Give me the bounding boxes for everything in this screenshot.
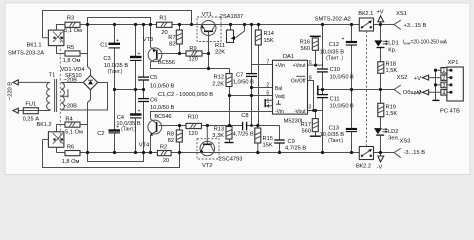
capacitor C1 xyxy=(100,38,120,49)
mechanical link dashed BK1 xyxy=(59,32,61,144)
svg-text:XP1: XP1 xyxy=(448,60,459,66)
svg-text:XS1: XS1 xyxy=(396,11,407,17)
resistor R10 xyxy=(186,115,201,137)
wire R15 leads xyxy=(257,126,259,153)
svg-text:20: 20 xyxy=(163,158,169,164)
wire top main rail xyxy=(57,24,395,26)
svg-text:LD1: LD1 xyxy=(388,40,398,46)
resistor R6 xyxy=(62,144,80,165)
capacitor C5 xyxy=(138,75,175,90)
svg-text:VT2: VT2 xyxy=(202,163,212,169)
transistor VT4 xyxy=(139,114,172,148)
resistor R19 xyxy=(378,103,398,117)
wire VT1 base vertical xyxy=(208,35,210,68)
svg-text:R5: R5 xyxy=(67,45,74,51)
wire bottom BK1.2 feed line y=167.5 xyxy=(43,140,180,168)
svg-text:ВК2.2: ВК2.2 xyxy=(356,163,371,169)
wire VT2 base vertical xyxy=(206,126,208,139)
svg-text:C9: C9 xyxy=(288,139,295,145)
thermal switch BK1.2 xyxy=(36,122,63,152)
ground pins 1 4 xyxy=(265,100,272,106)
svg-text:On/Off: On/Off xyxy=(291,78,306,84)
capacitor C2 xyxy=(97,124,120,136)
wire R14 leads xyxy=(258,25,260,126)
svg-text:ВС546: ВС546 xyxy=(154,114,171,120)
svg-text:+V: +V xyxy=(376,9,383,15)
resistor R12 xyxy=(212,74,232,88)
wire R12 leads xyxy=(229,69,231,96)
svg-text:C1: C1 xyxy=(100,43,107,49)
svg-text:SF510: SF510 xyxy=(65,73,82,79)
bridge rectifier VD1-VD4 xyxy=(60,67,97,90)
svg-text:C11: C11 xyxy=(330,96,340,102)
svg-text:+3...15 В: +3...15 В xyxy=(404,23,427,29)
svg-text:-Vin: -Vin xyxy=(275,109,284,115)
svg-text:10,0/50 В: 10,0/50 В xyxy=(150,105,175,111)
svg-text:2,2K: 2,2K xyxy=(212,81,224,87)
connector XP1 xyxy=(414,60,463,114)
jack XS1 xyxy=(394,11,427,29)
wire VT4 base line R10 R13 C8 row y=125.5 xyxy=(159,125,280,127)
wire C12 C13 chain x=351.5 xyxy=(351,25,353,153)
capacitor C9 xyxy=(274,139,306,152)
svg-text:R12: R12 xyxy=(214,75,224,81)
capacitor C12 xyxy=(320,37,357,62)
mechanical link dashed xyxy=(366,31,368,147)
wire R11 wiper xyxy=(236,25,245,38)
svg-text:(Тант.): (Тант.) xyxy=(108,69,123,75)
svg-text:20: 20 xyxy=(161,30,167,36)
svg-text:1,0/50 В: 1,0/50 В xyxy=(233,80,254,86)
wire C7 vertical xyxy=(251,65,253,126)
svg-text:Кр.: Кр. xyxy=(388,47,396,53)
svg-text:R7: R7 xyxy=(168,35,175,41)
svg-text:R9: R9 xyxy=(189,46,196,52)
resistor R18 xyxy=(378,61,398,74)
svg-text:1,5K: 1,5K xyxy=(386,111,398,117)
capacitor C13 xyxy=(320,125,357,144)
svg-text:VT3: VT3 xyxy=(143,37,153,43)
+V symbol xyxy=(376,9,383,21)
capacitor C8 xyxy=(233,113,254,137)
svg-text:R1: R1 xyxy=(159,15,166,21)
svg-text:C13: C13 xyxy=(329,125,339,131)
junction dots misc xyxy=(113,88,116,91)
wire common midpoint link xyxy=(115,89,144,91)
svg-text:C5: C5 xyxy=(150,75,157,81)
wire R16 leads xyxy=(315,36,317,65)
wire VT3 emitter xyxy=(150,25,152,48)
capacitor C10 xyxy=(317,67,354,80)
svg-text:22K: 22K xyxy=(215,50,225,56)
wire R17 leads xyxy=(315,111,317,137)
capacitor C3 xyxy=(103,51,141,75)
transistor VT2 xyxy=(197,139,242,169)
svg-text:R8: R8 xyxy=(167,132,174,138)
svg-text:R16: R16 xyxy=(300,39,310,45)
svg-text:Vadj: Vadj xyxy=(275,94,285,100)
svg-text:DA1: DA1 xyxy=(283,54,294,60)
svg-text:R11: R11 xyxy=(215,43,225,49)
svg-text:+: + xyxy=(116,38,119,44)
svg-text:+Vin: +Vin xyxy=(275,63,285,69)
svg-text:560: 560 xyxy=(302,128,312,134)
wire bottom parallel loop y=161.5 xyxy=(88,153,144,162)
jack XS3 xyxy=(394,138,425,157)
fuse FU1 xyxy=(23,102,40,123)
wire VT3 collector to line xyxy=(151,62,230,69)
svg-text:-V: -V xyxy=(377,165,383,171)
svg-text:(Тант.): (Тант.) xyxy=(328,138,343,144)
wire bridge minus drop xyxy=(88,90,91,153)
svg-text:R3: R3 xyxy=(67,16,74,22)
wire R12 to R13 vertical xyxy=(229,96,231,126)
svg-text:C7: C7 xyxy=(236,72,243,78)
resistor R7 xyxy=(168,30,182,48)
svg-text:1: 1 xyxy=(443,68,446,74)
capacitor C6 xyxy=(138,97,175,111)
svg-text:10,0/35 В: 10,0/35 В xyxy=(320,49,345,55)
resistor R9 xyxy=(186,46,202,63)
svg-text:5: 5 xyxy=(266,90,269,96)
svg-text:C1,C2 - 10000,0/50 В: C1,C2 - 10000,0/50 В xyxy=(158,92,213,98)
wire R13 bottom to ground xyxy=(229,139,231,143)
jack XS2 xyxy=(394,75,422,96)
resistor R17 xyxy=(301,119,321,137)
wire pin8 OnOff xyxy=(308,81,314,111)
svg-text:Bal: Bal xyxy=(275,86,282,92)
wire C5 C6 chain xyxy=(143,25,145,153)
svg-text:3: 3 xyxy=(308,104,311,110)
switch BK2.2 xyxy=(356,147,374,170)
svg-text:2: 2 xyxy=(443,76,446,82)
svg-text:VT4: VT4 xyxy=(139,142,149,148)
svg-text:+Vout: +Vout xyxy=(293,63,307,69)
svg-text:FU1: FU1 xyxy=(25,102,36,108)
wire common rail right xyxy=(318,89,394,91)
svg-text:ВК1.1: ВК1.1 xyxy=(26,43,41,49)
resistor R4 xyxy=(57,116,88,152)
junction dots top rail xyxy=(86,23,89,26)
svg-text:SMTS-203-2A: SMTS-203-2A xyxy=(8,50,44,56)
svg-text:8: 8 xyxy=(309,75,312,81)
svg-text:15K: 15K xyxy=(263,143,273,149)
svg-text:LD2: LD2 xyxy=(388,129,398,135)
resistor R15 xyxy=(255,128,273,149)
svg-text:+: + xyxy=(342,37,345,43)
svg-text:C10: C10 xyxy=(330,67,340,73)
svg-text:2SC4793: 2SC4793 xyxy=(219,156,243,162)
wire top parallel loop y=17.5 xyxy=(88,18,151,25)
potentiometer R11 xyxy=(215,30,235,56)
input terminal top xyxy=(13,80,50,85)
svg-text:-3...15 В: -3...15 В xyxy=(404,150,426,156)
svg-text:120: 120 xyxy=(188,56,198,62)
svg-text:82: 82 xyxy=(169,42,175,48)
wire C9 drop xyxy=(279,126,281,153)
svg-text:4: 4 xyxy=(267,104,270,110)
svg-text:+: + xyxy=(138,51,141,57)
wire VT4 collector line -Vin y=111.5 xyxy=(151,112,273,120)
capacitor C7 xyxy=(233,72,257,85)
svg-text:(Тант .): (Тант .) xyxy=(326,56,343,62)
svg-text:6: 6 xyxy=(309,60,312,66)
svg-text:(Тант.): (Тант.) xyxy=(121,127,136,133)
svg-text:1,5K: 1,5K xyxy=(386,68,398,74)
svg-text:T1: T1 xyxy=(49,72,56,78)
wire right bus x=322.5 xyxy=(322,25,324,153)
svg-text:4: 4 xyxy=(443,90,446,96)
svg-text:R13: R13 xyxy=(214,127,224,133)
junction dots bottom rail xyxy=(86,151,89,154)
resistor R2 xyxy=(157,145,171,164)
wire pin6 +Vout to bus xyxy=(308,64,323,66)
IC DA1 xyxy=(265,54,312,124)
svg-text:1,8 Ом: 1,8 Ом xyxy=(62,159,80,165)
transistor VT3 xyxy=(143,37,175,66)
svg-text:R6: R6 xyxy=(67,144,74,150)
resistor R13 xyxy=(212,127,232,140)
svg-text:7: 7 xyxy=(266,60,269,66)
svg-text:-Vout: -Vout xyxy=(294,109,306,115)
wire top BK1.1 feed line y=10.5 xyxy=(43,11,192,38)
svg-text:R15: R15 xyxy=(263,136,273,142)
resistor R3 xyxy=(64,16,82,34)
svg-text:R18: R18 xyxy=(386,61,396,67)
svg-text:PC 4ТВ: PC 4ТВ xyxy=(440,108,460,114)
svg-text:-V: -V xyxy=(415,91,421,97)
resistor R8 xyxy=(167,130,183,144)
svg-text:10,0/50 В: 10,0/50 В xyxy=(330,104,355,110)
svg-text:5,1 Ом: 5,1 Ом xyxy=(64,28,82,34)
ground bar common rail start xyxy=(317,85,319,94)
wire VT3 base line with R9 xyxy=(158,53,209,55)
svg-text:R14: R14 xyxy=(264,31,274,37)
svg-text:ВК2.1: ВК2.1 xyxy=(358,11,373,17)
thermal switch BK1.1 xyxy=(8,25,65,57)
svg-text:560: 560 xyxy=(301,46,311,52)
wire Bal pin2 xyxy=(252,87,273,89)
wire +Vin drop pin7 xyxy=(252,25,273,65)
svg-text:120: 120 xyxy=(188,131,198,137)
wire VT4 emitter xyxy=(150,135,152,153)
svg-text:XS2: XS2 xyxy=(397,75,408,81)
svg-text:C12: C12 xyxy=(329,42,339,48)
svg-text:10,0/50 В: 10,0/50 В xyxy=(330,74,355,80)
svg-text:C2: C2 xyxy=(97,131,104,137)
svg-text:R4: R4 xyxy=(65,116,72,122)
wire bridge plus drop xyxy=(88,25,91,76)
svg-text:~220 В: ~220 В xyxy=(8,82,14,100)
wire R8 leads xyxy=(179,126,181,153)
svg-text:+V: +V xyxy=(414,76,421,82)
svg-text:C3: C3 xyxy=(103,56,110,62)
svg-text:Зел.: Зел. xyxy=(388,136,400,142)
wire bottom main rail xyxy=(57,152,395,154)
wire LED chain x=380.5 xyxy=(380,22,382,156)
svg-text:0,25 А: 0,25 А xyxy=(23,116,40,122)
capacitor C11 xyxy=(317,95,354,110)
capacitor C4 xyxy=(116,109,141,133)
svg-text:XS3: XS3 xyxy=(400,138,411,144)
schematic canvas xyxy=(5,3,470,175)
svg-text:3,3K: 3,3K xyxy=(212,133,224,139)
wire C1 C2 chain xyxy=(114,25,116,153)
svg-text:15K: 15K xyxy=(264,38,274,44)
wire Vadj pin5 xyxy=(230,95,273,97)
LED LD2 xyxy=(374,128,400,142)
svg-text:2SA1837: 2SA1837 xyxy=(220,14,243,20)
svg-text:10,0/50 В: 10,0/50 В xyxy=(150,84,175,90)
resistor R5 xyxy=(63,25,88,64)
LED LD1 xyxy=(374,40,398,53)
transformer T1 xyxy=(38,72,107,112)
svg-text:4,7/25 В: 4,7/25 В xyxy=(233,131,254,137)
transistor VT1 xyxy=(197,12,243,42)
resistor R16 xyxy=(300,36,321,52)
switch BK2.1 xyxy=(358,11,373,31)
svg-text:4,7/25 В: 4,7/25 В xyxy=(285,146,306,152)
resistor R14 xyxy=(255,30,274,45)
resistor R1 xyxy=(157,15,173,36)
ground bar R13 xyxy=(225,142,234,144)
svg-text:R2: R2 xyxy=(160,145,167,151)
svg-text:~20В: ~20В xyxy=(64,104,78,110)
svg-text:82: 82 xyxy=(168,138,174,144)
svg-text:R10: R10 xyxy=(188,115,198,121)
svg-text:ВС556: ВС556 xyxy=(158,60,175,66)
-V symbol xyxy=(377,156,384,171)
svg-text:5,1 Ом: 5,1 Ом xyxy=(65,129,83,135)
svg-text:+: + xyxy=(138,109,141,115)
wire C3 C4 chain xyxy=(135,25,137,153)
wire pin3 -Vout to bus xyxy=(308,110,323,112)
svg-text:VT1: VT1 xyxy=(202,12,212,18)
svg-text:3: 3 xyxy=(443,83,446,89)
wire R11 top lead xyxy=(230,25,232,31)
svg-text:2: 2 xyxy=(266,82,269,88)
svg-text:C8: C8 xyxy=(241,113,248,119)
svg-text:SMTS-202-A2: SMTS-202-A2 xyxy=(315,17,351,23)
svg-text:C6: C6 xyxy=(150,97,157,103)
svg-text:R19: R19 xyxy=(386,104,396,110)
input terminal bottom xyxy=(13,108,50,113)
svg-text:ВК1.2: ВК1.2 xyxy=(36,122,51,128)
svg-text:1,8 Ом: 1,8 Ом xyxy=(63,58,81,64)
wire R7 leads xyxy=(179,25,181,54)
svg-text:R17: R17 xyxy=(301,122,311,128)
